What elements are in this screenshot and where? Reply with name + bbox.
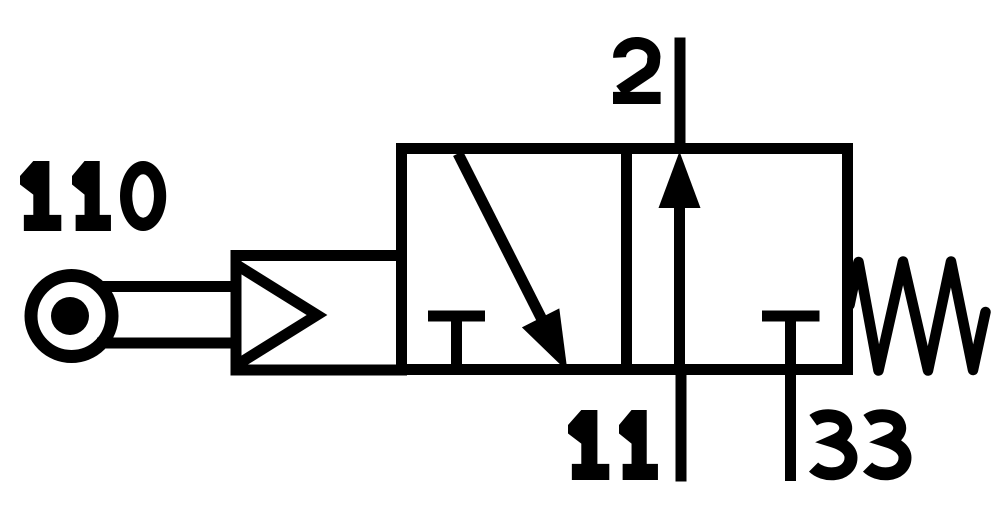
flow arrow shaft 2->3 (left chamber) bbox=[458, 154, 543, 322]
plunger triangle bbox=[236, 265, 317, 366]
up-flow arrow shaft 1->2 (right chamber) bbox=[674, 206, 685, 370]
plunger actuator box bbox=[236, 256, 402, 371]
label 110 bbox=[20, 161, 166, 231]
port 1 wire bbox=[676, 369, 687, 482]
flow arrowhead (left chamber) bbox=[522, 308, 568, 371]
port 2 wire bbox=[675, 38, 686, 154]
port 3 stub wire bbox=[785, 316, 796, 481]
valve body outline bbox=[402, 149, 848, 370]
roller wheel bbox=[31, 276, 112, 357]
roller rod top bbox=[97, 281, 236, 292]
return spring bbox=[850, 262, 986, 371]
blocked port T (left chamber) bbox=[428, 316, 485, 369]
roller rod bottom bbox=[97, 338, 236, 349]
flow arrowhead (right chamber) bbox=[659, 152, 701, 209]
label 33 bbox=[813, 416, 905, 474]
roller axle dot bbox=[51, 297, 89, 335]
label 11 bbox=[568, 410, 658, 480]
blocked port T (right chamber) bbox=[762, 311, 820, 322]
label 2 bbox=[613, 43, 661, 104]
chamber divider bbox=[621, 149, 632, 370]
